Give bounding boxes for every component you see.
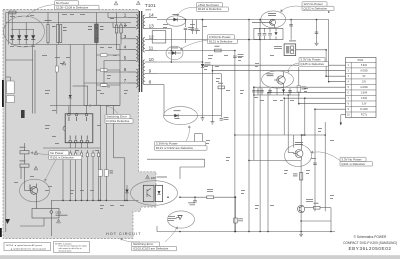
svg-text:4: 4 [124,45,127,50]
transformer secondary winding [143,15,157,85]
Q121 label [295,142,303,145]
svg-text:10: 10 [149,57,155,62]
notes box safety [54,242,90,253]
wires from IC101 bottom pins [43,143,100,148]
leader arc to bridge [27,5,55,17]
svg-text:A.GND: A.GND [360,70,368,73]
svg-text:Q122 is Defective: Q122 is Defective [303,6,327,10]
hot circuit shaded region [3,10,156,239]
stub wires above callout [195,134,203,142]
diode D123 [173,14,180,21]
vertical from rail to bridge [11,13,13,30]
callout 3.3VA no power D121 [208,35,238,44]
snubber parts near primary [115,13,122,45]
svg-text:3: 3 [124,34,127,39]
aux horizontal y86 [73,86,88,106]
12V filter branch [316,20,318,42]
svg-text:▲ symbol denotes DC chassis gr: ▲ symbol denotes DC chassis ground [11,247,47,250]
misc tiny label marks [10,14,334,209]
secondary rail pin14 [157,19,329,21]
IC121 label [274,41,296,49]
transistor Q125 [274,72,285,88]
horizontal wire y105.5 [84,105,120,107]
svg-text:HOT CIRCUIT: HOT CIRCUIT [106,232,141,236]
svg-text:9: 9 [149,69,152,74]
svg-text:3.3VA No Power: 3.3VA No Power [209,35,231,39]
callout 3.3V no power Q121 [340,157,373,166]
bridge bottom rail [11,44,120,46]
callout switching error IC101a [105,114,133,123]
transistor Q101 [252,19,276,28]
ground rail bottom [157,231,335,233]
svg-text:© Schematics POWER: © Schematics POWER [354,235,387,239]
AC line second rail [6,22,131,24]
caps pair left [252,87,260,95]
highlight ellipse IC102 [131,181,178,206]
warning triangle near R101 [34,151,38,155]
bias caps row [260,90,292,93]
leader arc to IC101 [90,105,118,114]
leader arc to Q101 [282,6,303,11]
svg-text:3.3V No Power: 3.3V No Power [300,58,320,62]
svg-text:COMPACT DVD-P K200 (SAMSUNG): COMPACT DVD-P K200 (SAMSUNG) [343,241,397,245]
optocoupler IC102 [143,185,162,201]
diode D121 [168,48,181,55]
wires near IC122 [301,208,331,232]
svg-text:R101 is Defective: R101 is Defective [50,155,74,159]
leader arc to IC103 [165,229,177,243]
svg-text:electrical shock: electrical shock [59,250,72,253]
rail stub left [156,226,158,232]
CE-S test point [50,200,68,236]
bias caps [258,25,293,36]
highlight ellipse D122 [164,107,198,125]
notes box AC ground [4,243,51,251]
IC122 label [306,199,313,202]
callout +5VA no power [197,3,229,12]
vertical bus V2 [211,65,213,119]
vertical bus V11 [314,125,316,211]
rung resistors [101,54,108,87]
svg-text:5V: 5V [363,76,366,78]
secondary rail pin12 [157,39,260,41]
title block text [343,235,397,251]
highlight ellipse D123 [167,16,186,26]
capacitor C107 [57,13,62,45]
Q101 bias parts [254,20,291,40]
callout 12V no power [302,2,334,11]
svg-text:+5VA No Power: +5VA No Power [198,3,219,7]
secondary wire pin13 [157,29,171,63]
resistor R127 [218,83,224,89]
leader arc to D123 [178,7,197,15]
svg-text:6: 6 [124,67,127,72]
svg-text:D123 is Defective: D123 is Defective [198,7,222,11]
label marks near Q102 [30,185,31,190]
svg-text:EBY36L2050E02: EBY36L2050E02 [348,246,391,251]
highlight ellipse feedback transistor [20,179,50,202]
leader arc to Q121 [313,152,341,161]
IC101 switching regulator [63,113,93,143]
vertical bus V1 [202,20,204,116]
bridge top rail [11,29,34,31]
vertical bus V7 [259,20,261,232]
vertical x304.8 [304,98,306,135]
svg-text:D121 is Defective: D121 is Defective [209,39,233,43]
svg-text:Switching Error: Switching Error [133,242,153,246]
leader arc to Q125 [288,63,299,71]
second left bus [8,13,10,45]
relay box upper [7,81,15,94]
transformer T101 core [139,11,141,92]
diode D124 [201,63,211,68]
resistor R122 vertical [293,173,303,181]
vertical bus V6 [253,87,255,160]
fuse F101 [9,11,16,14]
vertical Q121 emitter bus [300,160,302,232]
vertical pair bus [33,45,35,114]
svg-text:3.3VA No Power: 3.3VA No Power [156,142,178,146]
vertical bus V12 [324,122,326,211]
secondary wire pin8 [157,85,221,116]
vertical bus V4 [234,51,236,232]
highlight ellipse D121 [166,46,183,60]
vertical bus V3 [220,74,222,118]
svg-text:No Power: No Power [50,151,63,155]
cap symbols [191,29,199,31]
vertical from filter down [95,45,97,106]
resistor R124 [215,46,222,52]
svg-text:5: 5 [124,56,127,61]
secondary rail pin11 [157,50,235,52]
leader arc to D121 D122 [186,128,189,142]
AC line top rail [6,12,139,14]
svg-text:11: 11 [149,46,154,51]
primary ground rail [51,199,138,201]
svg-text:NOTES: ▲ symbol denotes AC gro: NOTES: ▲ symbol denotes AC ground [6,244,43,247]
resistor on V10 [297,86,306,93]
callout switching error IC102 IC103 [132,242,177,251]
wires from IC101 top pins [50,106,120,114]
capacitor C105 [47,13,49,45]
warning triangle top edge [114,1,118,5]
dark component [21,110,25,118]
transistor IC122 [298,205,305,212]
leader arc to IC102 [122,240,140,243]
svg-text:IC101a Defective: IC101a Defective [106,119,129,123]
line filter L101 [95,13,99,45]
transformer T101 label [145,3,156,11]
svg-text:3.3V No Power: 3.3V No Power [341,157,361,161]
svg-text:12V No Power: 12V No Power [303,2,322,6]
vertical wire x70 [69,45,71,114]
svg-text:Q121 is Defective: Q121 is Defective [341,162,365,166]
svg-text:Switching Error: Switching Error [106,115,126,119]
connector P101 table [346,58,377,118]
cap on V11 [311,158,317,165]
svg-text:T101: T101 [145,3,156,9]
primary pin wiring stubs [84,13,128,84]
diode D122 [174,110,181,119]
IC101 drain verticals to rail [62,150,100,200]
callout 3.3V no power Q125 [299,57,329,66]
shunt regulator IC103 [176,216,182,220]
transformer primary pin numbers [124,13,127,84]
svg-text:P.CTL: P.CTL [361,115,368,117]
leader arc to Q102 [46,160,57,180]
svg-text:3.3V: 3.3V [362,104,367,106]
svg-text:13: 13 [149,24,155,29]
vertical from rail2 to bridge [25,23,27,30]
highlight ellipse Q125 [262,71,294,88]
warning triangle CE-S [57,219,61,223]
chassis ground mark corner [5,219,10,224]
tiny label marks top [45,18,128,31]
arrow P.CTL down [340,123,342,126]
vertical bus V10 [298,67,300,104]
Q101 label [268,13,276,16]
svg-text:8: 8 [149,80,152,85]
vertical wire x84 [83,45,85,106]
svg-text:14: 14 [149,13,155,18]
leader arc to D121 [182,40,208,49]
Q125 label [267,74,274,77]
svg-text:E06: E06 [151,176,156,180]
small components right column [98,170,113,177]
vertical bus V9 [283,98,285,135]
box around pin 12 net [152,31,166,43]
svg-text:P101: P101 [358,59,364,62]
svg-text:No Power: No Power [56,1,69,5]
resistor R102 [20,154,30,167]
bottom gray scan strip [0,255,400,259]
capacitor C126 [184,20,194,44]
left column horizontals [6,60,33,81]
zener to opto [125,185,128,200]
warning triangle mid-left [62,61,66,65]
cap C131 [188,197,197,205]
svg-text:5.6VA: 5.6VA [361,64,368,67]
svg-text:3.3VA: 3.3VA [361,97,368,100]
vertical 12V drop [328,20,330,82]
capacitor on V3 [220,117,229,120]
warning triangle above transformer core [136,1,140,5]
ground Q121 [299,232,303,237]
left edge black mark upper [2,80,4,107]
resistor R123 [314,203,321,209]
bridge rectifier diodes D101-D104 [10,30,35,45]
feedback step wires [147,159,205,179]
svg-text:A.GND: A.GND [360,86,368,89]
svg-text:D.GND: D.GND [360,109,368,111]
E06 label above opto [146,175,167,180]
svg-text:3.3VA: 3.3VA [361,92,368,95]
right column verticals [100,106,124,201]
warning triangle near R102 [34,166,38,170]
rail junction dots [62,200,128,202]
svg-text:D121 or D122 are Defective: D121 or D122 are Defective [156,146,194,150]
vertical R132 [234,197,243,231]
relay box lower [7,96,15,103]
resistor R101 [20,143,30,154]
svg-text:1: 1 [124,13,127,18]
svg-text:C105~C108 is Defective: C105~C108 is Defective [56,5,89,9]
5V regulator IC121 [284,44,296,56]
transformer primary winding [128,15,138,88]
svg-text:IC102,IC103 are Defective: IC102,IC103 are Defective [133,247,169,251]
caps under rail C119 C120 [193,20,197,35]
Q121 collector wire up [294,135,302,148]
transformer secondary pin numbers [149,13,155,85]
sub-circuit box bottom-left [32,209,59,219]
capacitor C123 [233,54,243,58]
leader arc to R101 [33,153,49,155]
highlight ellipse IC103 [168,211,195,228]
connector feed wires [203,65,346,125]
startup resistor rungs [96,55,120,85]
horizontal y135 [235,134,325,136]
startup vertical x56.8 [55,45,64,114]
secondary rail pin9 [157,73,221,75]
highlight ellipse bridge rectifier [4,16,45,47]
callout 3.3VA no power D121 D122 [155,141,208,150]
ground at rail [201,116,205,121]
transistor Q121 [293,146,303,160]
callout no power C105-C108 [55,1,100,10]
svg-text:CE-S: CE-S [56,211,62,214]
diode on x70 [69,95,72,98]
svg-text:Q125 is Defective: Q125 is Defective [300,62,324,66]
left edge black mark lower [0,228,2,237]
highlight ellipse Q101 [261,11,286,28]
callout no power R101 [49,151,82,160]
vertical wire x288 [288,95,294,153]
svg-text:7: 7 [124,78,127,83]
horizontal y160.4 [249,159,301,161]
vertical x120 down [119,45,121,106]
svg-text:SMPS: SMPS [145,10,152,12]
svg-text:12: 12 [149,35,155,40]
vertical bus V5 [248,20,250,232]
IC103 label [168,216,177,221]
vertical bus V8 [267,93,269,232]
5V output path [296,50,326,76]
highlight ellipse Q121 [285,145,312,167]
transistor Q102 [28,184,38,209]
secondary rail pin10 [157,61,203,63]
wires bottom-left [20,167,44,226]
Q125 bias parts row [254,88,300,95]
left bus wire [5,13,7,233]
svg-text:12V: 12V [362,82,367,84]
